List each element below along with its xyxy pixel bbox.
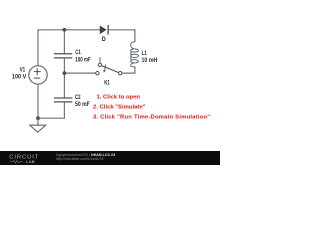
wire right column upper (to inductor top) <box>134 29 136 42</box>
diode D <box>100 25 108 35</box>
svg-text:Nguyenducnhan212 | NHAN-LCC-03: Nguyenducnhan212 | NHAN-LCC-03 <box>56 153 115 157</box>
capacitor C1 <box>54 54 72 58</box>
svg-text:V1: V1 <box>20 66 26 73</box>
wire top-left vertical (V1 top to top rail) <box>37 30 39 66</box>
footer bar <box>0 151 220 165</box>
svg-text:3. Click "Run Time-Domain Simu: 3. Click "Run Time-Domain Simulation" <box>93 114 210 120</box>
svg-text:C1: C1 <box>75 49 81 56</box>
svg-text:LAB: LAB <box>26 159 35 164</box>
wire top rail left segment <box>37 29 100 31</box>
svg-text:1. Click to open: 1. Click to open <box>97 95 141 101</box>
node junction middle (cap column / switch feed) <box>63 71 67 75</box>
svg-text:C2: C2 <box>75 94 81 101</box>
wire capacitor column middle (C1 to C2) <box>63 58 65 98</box>
svg-text:2. Click "Simulate": 2. Click "Simulate" <box>93 104 146 110</box>
ground <box>30 118 46 132</box>
wire switch feed (middle junction to switch left contact) <box>64 72 95 74</box>
wire right column lower (inductor bottom to corner and left to switch) <box>122 66 135 73</box>
capacitor C2 <box>54 98 72 102</box>
svg-text:10 mH: 10 mH <box>142 57 158 64</box>
wire capacitor column upper (junction to C1) <box>63 30 65 54</box>
annotation red instructions <box>93 95 210 121</box>
svg-text:http://circuitlab.com/c/2w5u78: http://circuitlab.com/c/2w5u78 <box>56 157 103 161</box>
svg-text:100 mF: 100 mF <box>75 56 91 63</box>
node junction top (cap column / top rail) <box>63 28 67 32</box>
node junction bottom (ground) <box>36 116 40 120</box>
switch K1 <box>96 57 122 75</box>
wire capacitor column bottom (C2 to bottom rail) <box>38 102 64 118</box>
wire V1 bottom to ground junction <box>37 84 39 119</box>
logo CircuitLab <box>9 154 39 164</box>
inductor L1 <box>131 42 135 49</box>
svg-text:D: D <box>102 36 107 43</box>
svg-text:K1: K1 <box>104 80 110 87</box>
wire top rail right segment (diode cathode to right column) <box>108 29 135 31</box>
svg-text:100 V: 100 V <box>12 73 27 80</box>
svg-text:50 mF: 50 mF <box>75 101 90 108</box>
svg-text:L1: L1 <box>142 50 148 57</box>
voltage source V1 <box>29 66 47 84</box>
